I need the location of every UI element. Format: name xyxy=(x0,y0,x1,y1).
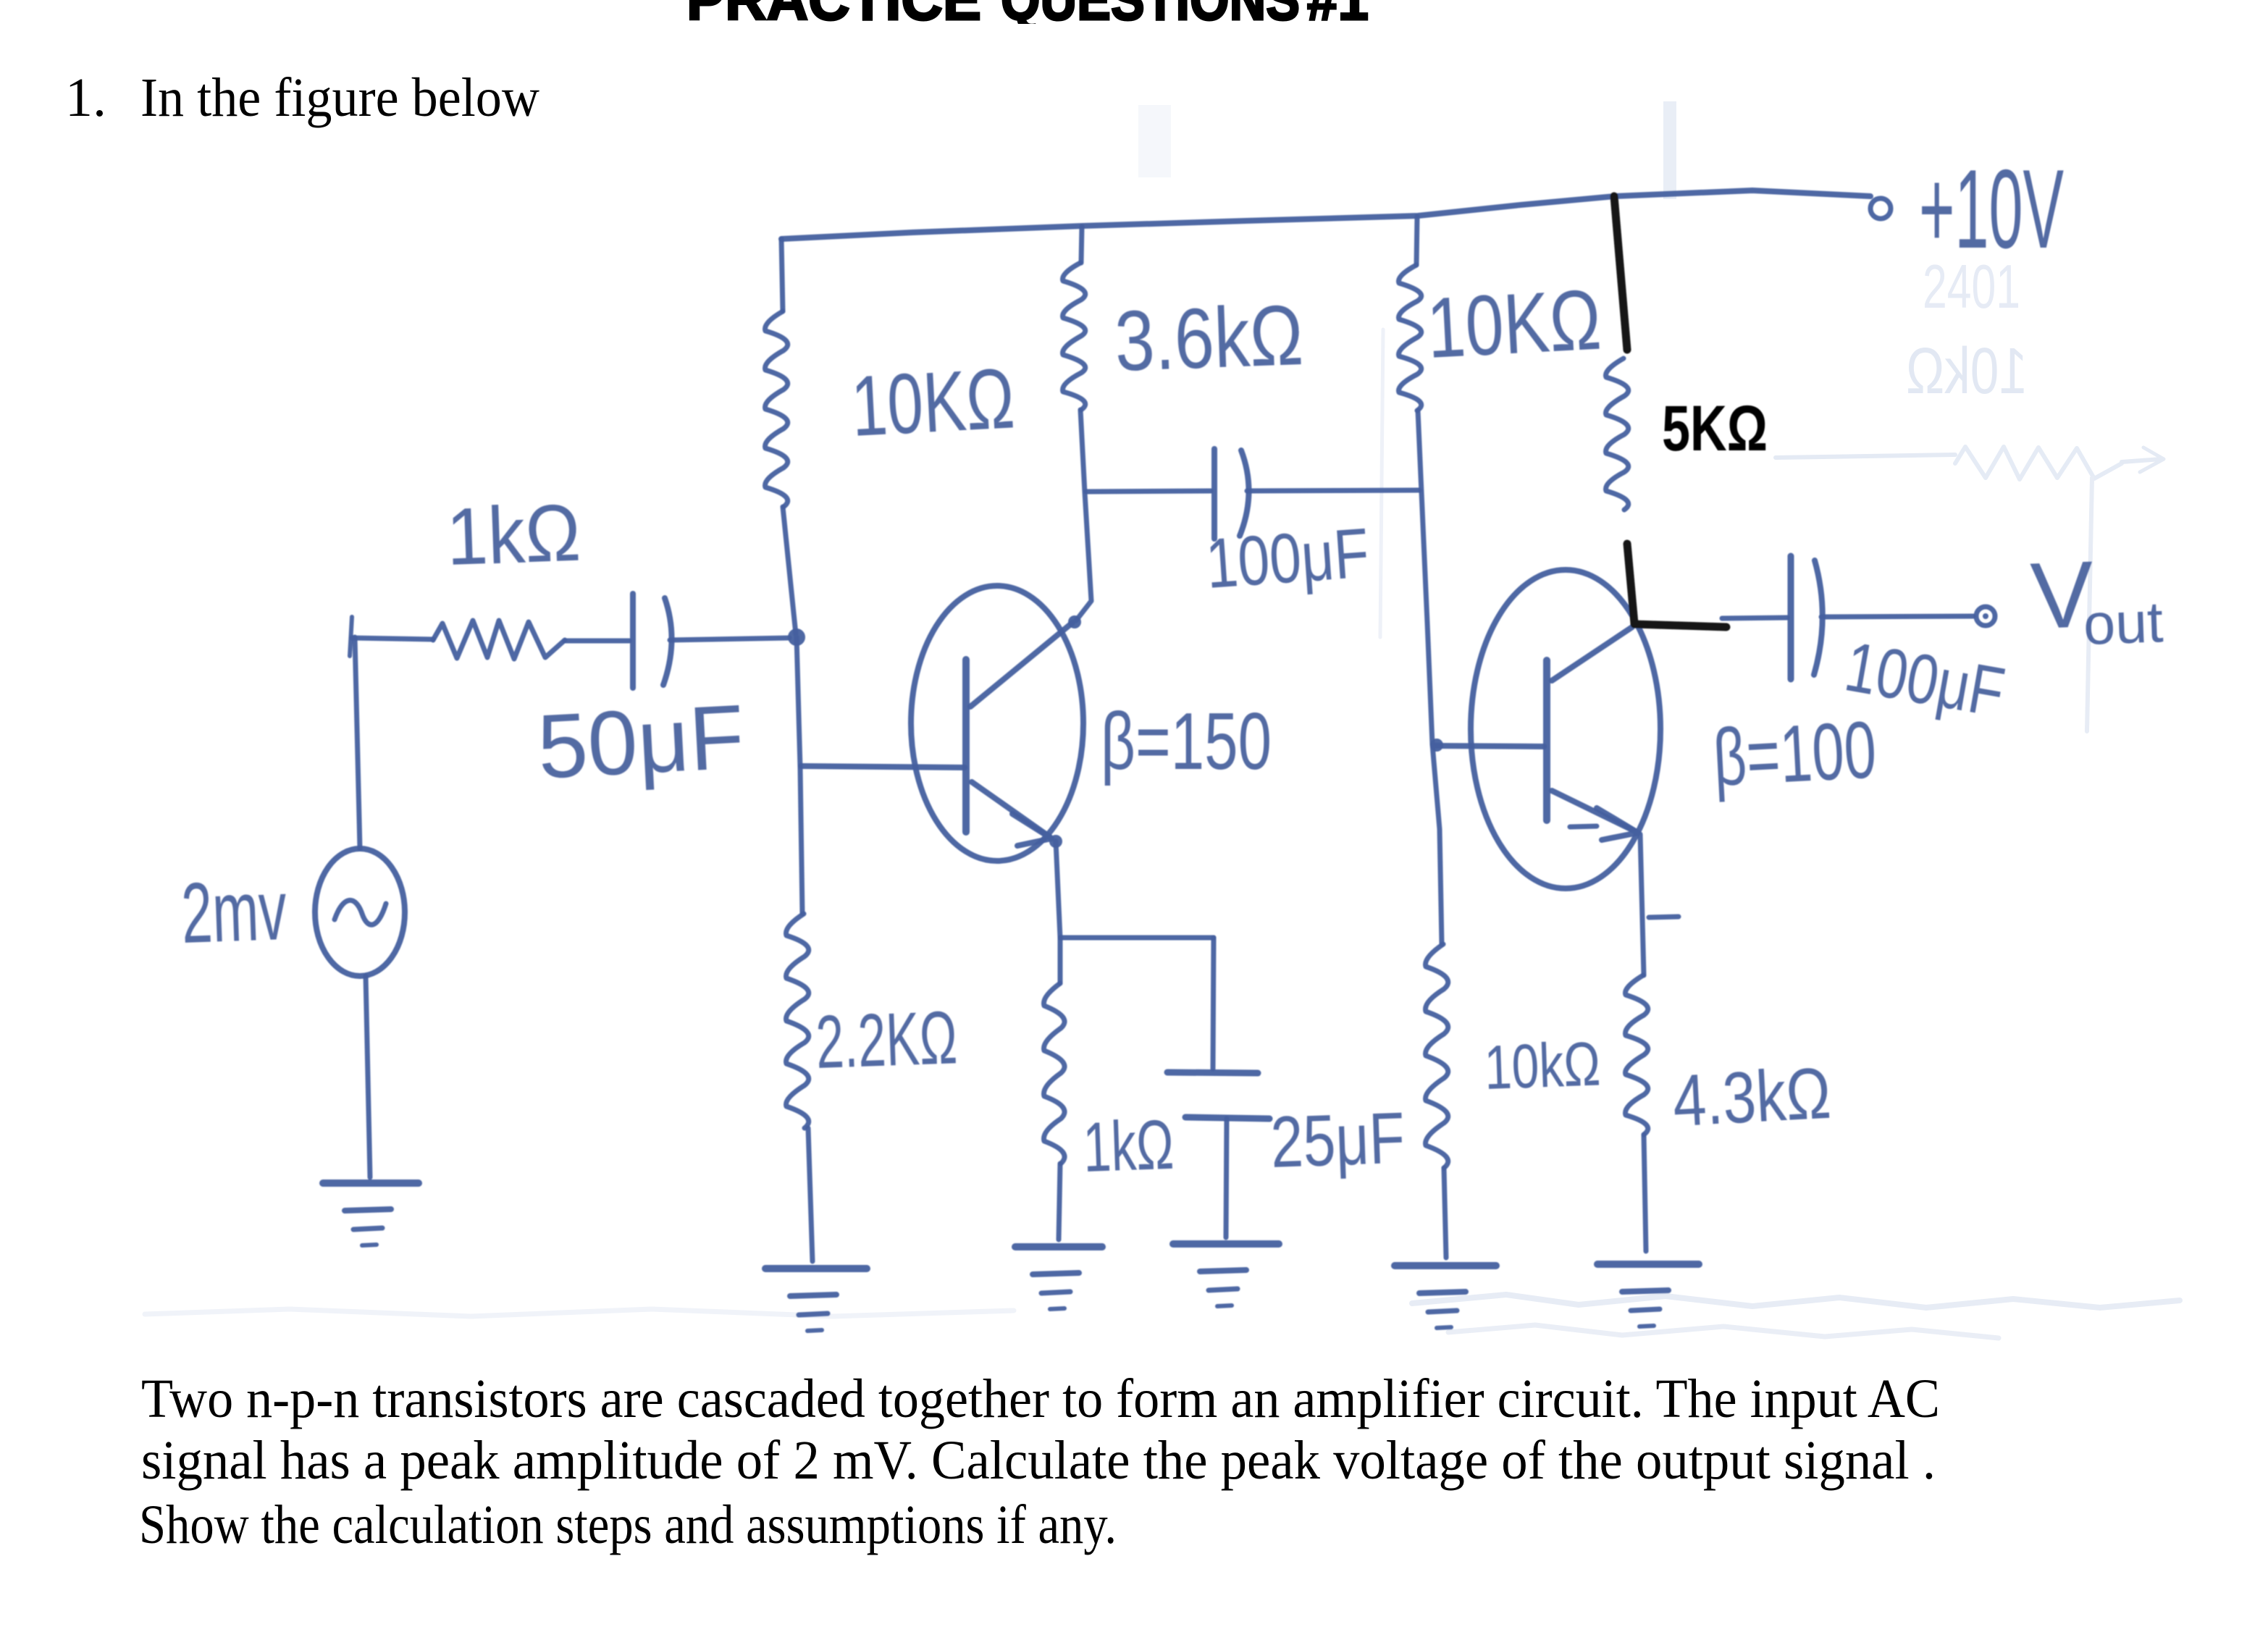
+10V terminal xyxy=(1870,198,1891,219)
signal source 2mv xyxy=(355,637,360,849)
resistor R9 1kΩ emitter xyxy=(1058,938,1063,983)
resistor R3 2.2KΩ xyxy=(786,914,809,1128)
capacitor C1 50μF xyxy=(630,594,636,688)
svg-text:out: out xyxy=(2082,589,2164,657)
svg-text:β=100: β=100 xyxy=(1711,705,1878,803)
svg-text:2.2KΩ: 2.2KΩ xyxy=(815,996,959,1085)
svg-text:1kΩ: 1kΩ xyxy=(1082,1105,1175,1187)
wire base1 xyxy=(801,766,965,768)
svg-text:signal has a peak amplitude of: signal has a peak amplitude of 2 mV. Cal… xyxy=(141,1430,1936,1491)
transistor Q1 xyxy=(911,586,1083,861)
wire emitter Q1 down xyxy=(1056,841,1060,938)
node emitter Q1 xyxy=(1049,835,1062,848)
svg-text:2mv: 2mv xyxy=(180,862,288,962)
resistor R6 10kΩ stage2 divider bottom xyxy=(1432,744,1442,944)
resistor R8 5KΩ xyxy=(1606,358,1629,510)
ground G0 source xyxy=(323,1179,419,1187)
wire base2 xyxy=(1434,746,1544,747)
ground G3 xyxy=(1597,1261,1699,1268)
wire emitter tee right xyxy=(1060,935,1214,941)
Vout terminal xyxy=(1976,607,1995,626)
svg-text:25μF: 25μF xyxy=(1269,1098,1406,1183)
node collector Q1 xyxy=(1068,615,1081,628)
svg-text:10kΩ: 10kΩ xyxy=(1906,335,2028,408)
wire down to 2.2k xyxy=(797,637,802,914)
resistor R7 4.3kΩ xyxy=(1626,975,1648,1135)
output capacitor C3 100μF xyxy=(1722,618,1787,618)
node base Q2 xyxy=(1430,739,1443,752)
transistor Q2 xyxy=(1471,570,1660,888)
svg-text:In the figure below: In the figure below xyxy=(140,67,539,128)
svg-text:1.: 1. xyxy=(65,67,106,128)
ground under 1kΩ xyxy=(1015,1243,1102,1250)
black wire rail to 5K xyxy=(1614,196,1627,350)
wire collector Q1 xyxy=(1076,410,1091,621)
ground G1 xyxy=(765,1265,867,1272)
resistor R4 3.6kΩ xyxy=(1081,227,1082,263)
svg-text:10kΩ: 10kΩ xyxy=(1483,1029,1601,1103)
ground G2 xyxy=(1395,1262,1496,1269)
svg-text:Two n-p-n transistors are casc: Two n-p-n transistors are cascaded toget… xyxy=(141,1368,1940,1429)
svg-text:5KΩ: 5KΩ xyxy=(1662,392,1768,464)
capacitor C2 100μF coupling xyxy=(1086,491,1211,492)
svg-text:1kΩ: 1kΩ xyxy=(445,488,582,582)
svg-text:β=150: β=150 xyxy=(1101,697,1272,786)
wire emitter Q2 down xyxy=(1640,834,1644,975)
black wire 5K to collector xyxy=(1627,544,1634,623)
source resistor 1kΩ xyxy=(350,617,352,656)
node base divider junction stage1 xyxy=(788,628,805,646)
svg-text:50μF: 50μF xyxy=(535,686,747,798)
+10V supply rail xyxy=(781,190,1870,239)
svg-text:100μF: 100μF xyxy=(1204,513,1372,603)
svg-text:3.6kΩ: 3.6kΩ xyxy=(1113,287,1304,390)
svg-text:+10V: +10V xyxy=(1919,146,2064,272)
resistor R1 10KΩ stage1 divider top xyxy=(781,239,783,311)
svg-text:4.3kΩ: 4.3kΩ xyxy=(1671,1053,1833,1142)
svg-text:Show the calculation steps and: Show the calculation steps and assumptio… xyxy=(139,1494,1117,1555)
svg-text:10KΩ: 10KΩ xyxy=(849,350,1017,455)
capacitor C4 25μF bypass xyxy=(1213,938,1214,1069)
svg-text:10KΩ: 10KΩ xyxy=(1424,272,1603,377)
ground under 25μF xyxy=(1173,1240,1279,1248)
resistor R5 10KΩ stage2 divider top xyxy=(1416,216,1417,265)
